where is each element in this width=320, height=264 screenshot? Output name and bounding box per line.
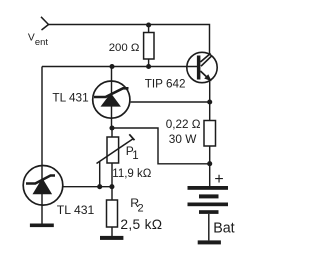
transistor Q1 collector strokes [200, 53, 211, 66]
label: TIP 642 [145, 78, 186, 91]
junction: P1 bottom / R2 top [109, 184, 114, 189]
U2 cathode zener bar [26, 176, 55, 184]
junction: base rail / U1 cathode [109, 64, 114, 69]
junction: U1 anode / P1 / sense wire [109, 125, 114, 130]
battery Bat plate 2 short [199, 194, 219, 198]
wire: U1 reference to emitter node [131, 101, 210, 103]
transistor Q1 base bar [197, 56, 201, 80]
svg-text:0,22 Ω: 0,22 Ω [166, 118, 201, 131]
wire: P1 top lead [111, 128, 113, 137]
ground bar under R2 [100, 236, 123, 240]
junction: base rail / 200 ohm bottom [146, 64, 151, 69]
wire: emitter node down to 0.22 ohm resistor [209, 81, 211, 121]
wire: base rail from left corner to Q1 base [42, 66, 197, 68]
label: TL 431 lower [57, 203, 95, 217]
transistor Q1 TIP 642 body circle [187, 52, 217, 82]
label: TL 431 upper [52, 91, 88, 105]
svg-text:1: 1 [132, 150, 138, 162]
wire: U1 cathode lead (vertical through circle) [111, 67, 113, 129]
shunt regulator U2 TL 431 body circle [23, 166, 63, 206]
wire: 200 ohm resistor top lead [148, 25, 150, 33]
label: battery plus [214, 171, 223, 188]
wire: R2 top lead [111, 187, 113, 200]
wire: left rail down to U2 cathode and ground [41, 67, 43, 224]
label: Vent input [28, 33, 48, 48]
junction: emitter node / U1 reference [207, 99, 212, 104]
svg-text:+: + [214, 171, 223, 188]
svg-text:TL 431: TL 431 [57, 203, 95, 217]
resistor 0.22 ohm body [204, 121, 216, 147]
label: 2,5 kohm value [120, 217, 162, 232]
wire: P1 wiper lead down to reference node [99, 161, 101, 187]
wire: 0.22 ohm bottom lead to battery node [209, 146, 211, 164]
wire: battery inter-cell lead [208, 214, 210, 240]
svg-text:ent: ent [35, 36, 48, 47]
resistor R2 body [107, 200, 118, 227]
U1 cathode zener bar [94, 88, 129, 97]
U2 anode triangle [33, 178, 53, 194]
wire: 200 ohm resistor bottom lead [148, 59, 150, 67]
svg-text:11,9 kΩ: 11,9 kΩ [112, 168, 151, 180]
wire: top rail from Vent input to Q1 collector [49, 25, 210, 54]
potentiometer P1 wiper arrow [97, 134, 135, 163]
label: Bat [213, 220, 234, 236]
battery Bat plate 4 short [199, 210, 219, 214]
junction: battery plus node [207, 161, 212, 166]
potentiometer P1 body [107, 137, 119, 163]
wire: sense wire from U1 anode node to battery plus node [112, 128, 210, 164]
label: 200 ohm value [109, 42, 140, 54]
svg-text:TL 431: TL 431 [52, 91, 88, 105]
junction: top rail / 200 ohm [146, 22, 151, 27]
label: 30 W value [169, 132, 197, 146]
wire: P1 bottom lead [111, 163, 113, 187]
wire: battery positive lead [209, 164, 211, 186]
label: 11,9 kohm value [112, 168, 151, 180]
battery Bat plate 3 long [188, 203, 229, 207]
U1 anode triangle [101, 93, 121, 107]
svg-text:2,5 kΩ: 2,5 kΩ [120, 217, 162, 232]
svg-text:2: 2 [138, 202, 144, 214]
svg-text:200 Ω: 200 Ω [109, 42, 140, 54]
junction: wiper / U2 reference [97, 184, 102, 189]
svg-text:Bat: Bat [213, 220, 234, 236]
wire: U2 reference to divider node [63, 186, 112, 188]
resistor 200 ohm body [144, 33, 154, 60]
input terminal arrow Vent [41, 17, 49, 30]
svg-text:TIP 642: TIP 642 [145, 78, 186, 91]
svg-text:V: V [28, 33, 35, 44]
wire: R2 bottom lead to ground [111, 227, 113, 236]
label: P1 [126, 144, 139, 162]
battery Bat plate 1 long [188, 186, 229, 190]
label: 0,22 ohm value [166, 118, 201, 131]
ground bar under battery [198, 240, 221, 244]
svg-text:30 W: 30 W [169, 132, 197, 146]
label: R2 [130, 196, 143, 214]
shunt regulator U1 TL 431 body circle [93, 81, 130, 118]
transistor Q1 emitter stroke with arrow [200, 71, 211, 81]
ground bar under U2 [30, 224, 54, 228]
